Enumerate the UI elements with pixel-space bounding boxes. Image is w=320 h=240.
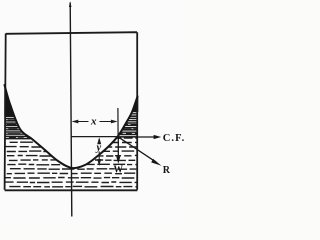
liquid hatching xyxy=(5,89,137,187)
svg-text:x: x xyxy=(90,115,97,127)
liquid surface parabola xyxy=(5,85,138,168)
y dimension arrow xyxy=(98,139,100,163)
dense wedge hatching xyxy=(5,92,137,138)
svg-text:R: R xyxy=(163,165,171,176)
W arrow xyxy=(117,137,119,158)
R arrow xyxy=(119,137,156,162)
C.F. arrow xyxy=(119,136,156,138)
right wedge solid xyxy=(132,96,139,113)
tick at end of x dimension xyxy=(117,108,119,137)
axis of rotation xyxy=(70,3,72,217)
left wedge solid xyxy=(4,85,13,117)
svg-text:C.F.: C.F. xyxy=(163,133,184,144)
svg-text:y: y xyxy=(94,143,101,154)
liquid region (clipped hatching) xyxy=(5,89,137,187)
horizontal reference line through P xyxy=(71,136,118,138)
vessel outline xyxy=(5,32,138,190)
svg-text:W: W xyxy=(113,163,123,175)
x dimension line xyxy=(74,121,116,123)
